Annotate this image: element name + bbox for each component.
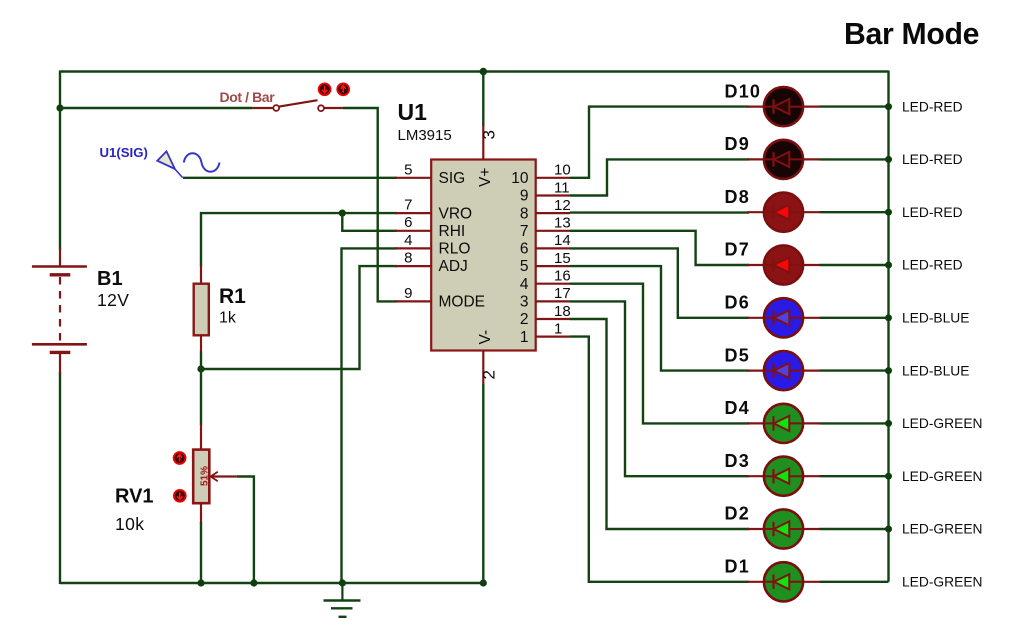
svg-text:4: 4 bbox=[520, 276, 529, 293]
svg-text:7: 7 bbox=[520, 223, 529, 240]
svg-text:51%: 51% bbox=[200, 466, 211, 486]
LED D6 bbox=[747, 298, 889, 337]
LED D5 bbox=[747, 351, 889, 390]
svg-text:U1(SIG): U1(SIG) bbox=[100, 145, 148, 160]
svg-text:17: 17 bbox=[554, 285, 571, 302]
pin 5 SIG stub bbox=[395, 177, 431, 179]
svg-text:D3: D3 bbox=[725, 451, 750, 471]
svg-text:1: 1 bbox=[554, 320, 562, 337]
svg-text:LED-GREEN: LED-GREEN bbox=[902, 469, 983, 484]
wire top +12V rail bbox=[60, 70, 889, 72]
wire RV1 bottom to ground rail bbox=[200, 522, 202, 584]
wire net 11 to LED bbox=[570, 159, 749, 195]
svg-text:8: 8 bbox=[520, 205, 529, 222]
svg-text:7: 7 bbox=[404, 197, 412, 214]
pin 8 right stub bbox=[536, 212, 570, 214]
pin 6 right stub bbox=[536, 247, 570, 249]
svg-text:D5: D5 bbox=[725, 345, 750, 365]
potentiometer RV1 bbox=[193, 424, 237, 524]
node junction rail D4 bbox=[885, 420, 892, 427]
wire net 17 to LED bbox=[570, 301, 749, 476]
wire RV1 wiper to ground rail bbox=[237, 477, 254, 584]
svg-text:Bar Mode: Bar Mode bbox=[844, 18, 979, 51]
LED D1 bbox=[747, 562, 889, 601]
svg-text:V+: V+ bbox=[477, 168, 494, 187]
pin 7 right stub bbox=[536, 230, 570, 232]
svg-text:2: 2 bbox=[520, 311, 529, 328]
svg-text:LED-RED: LED-RED bbox=[902, 258, 963, 273]
svg-text:10: 10 bbox=[511, 170, 529, 187]
svg-text:D1: D1 bbox=[725, 557, 750, 577]
wire net 18 to LED bbox=[570, 319, 749, 529]
svg-text:15: 15 bbox=[554, 250, 571, 267]
node junction rail D7 bbox=[885, 262, 892, 269]
wire VRO to R1 top bbox=[201, 213, 397, 266]
node junction RV1 bottom / rail bbox=[197, 579, 204, 586]
switch SW1 Dot/Bar bbox=[253, 100, 343, 111]
svg-text:LM3915: LM3915 bbox=[398, 127, 452, 144]
svg-text:LED-BLUE: LED-BLUE bbox=[902, 363, 969, 378]
svg-text:9: 9 bbox=[520, 188, 529, 205]
svg-text:ADJ: ADJ bbox=[439, 258, 468, 275]
pin 2 V- wire bbox=[482, 351, 484, 584]
wire net 15 to LED bbox=[570, 266, 749, 371]
pin 9 MODE stub bbox=[395, 300, 431, 302]
svg-text:LED-RED: LED-RED bbox=[902, 152, 963, 167]
svg-text:LED-GREEN: LED-GREEN bbox=[902, 416, 983, 431]
LED D2 bbox=[747, 509, 889, 548]
svg-text:B1: B1 bbox=[97, 268, 123, 290]
svg-text:2: 2 bbox=[480, 370, 499, 379]
wire SIG signal bbox=[183, 177, 397, 179]
pin 7 VRO stub bbox=[395, 212, 431, 214]
svg-text:4: 4 bbox=[404, 232, 412, 249]
node junction top rail / V+ pin bbox=[480, 68, 487, 75]
svg-text:1: 1 bbox=[520, 329, 529, 346]
svg-text:VRO: VRO bbox=[439, 205, 473, 222]
svg-text:LED-GREEN: LED-GREEN bbox=[902, 522, 983, 537]
svg-text:D6: D6 bbox=[725, 293, 750, 313]
svg-text:11: 11 bbox=[554, 179, 570, 196]
svg-text:LED-GREEN: LED-GREEN bbox=[902, 575, 983, 590]
svg-text:10: 10 bbox=[554, 162, 571, 179]
wire net 13 to LED bbox=[570, 231, 749, 265]
LED D9 bbox=[747, 140, 889, 179]
svg-text:12: 12 bbox=[554, 197, 571, 214]
svg-text:D8: D8 bbox=[725, 187, 750, 207]
svg-text:U1: U1 bbox=[398, 99, 428, 125]
pin 4 RLO stub bbox=[395, 247, 431, 249]
svg-text:8: 8 bbox=[404, 250, 412, 267]
wire net 12 to D8 bbox=[570, 211, 749, 213]
pin 4 right stub bbox=[536, 283, 570, 285]
generator probe bbox=[157, 151, 219, 177]
svg-text:SIG: SIG bbox=[439, 170, 466, 187]
ground symbol bbox=[324, 583, 361, 617]
node junction rail D6 bbox=[885, 314, 892, 321]
svg-text:1k: 1k bbox=[219, 310, 237, 327]
LED D4 bbox=[747, 404, 889, 443]
node junction rail D5 bbox=[885, 367, 892, 374]
svg-text:5: 5 bbox=[520, 258, 529, 275]
svg-text:10k: 10k bbox=[115, 514, 144, 534]
svg-text:18: 18 bbox=[554, 303, 571, 320]
svg-text:D2: D2 bbox=[725, 504, 750, 524]
node junction rail D10 bbox=[885, 103, 892, 110]
svg-text:3: 3 bbox=[520, 294, 529, 311]
svg-text:RHI: RHI bbox=[439, 223, 466, 240]
svg-text:MODE: MODE bbox=[439, 294, 486, 311]
switch actuator down bbox=[319, 83, 331, 95]
wire net 14 to LED bbox=[570, 248, 749, 317]
svg-text:16: 16 bbox=[554, 268, 571, 285]
pin 6 RHI stub bbox=[395, 230, 431, 232]
svg-text:R1: R1 bbox=[219, 285, 246, 308]
wire R1 bottom to RV1 top bbox=[200, 369, 202, 425]
LED D7 bbox=[747, 245, 889, 284]
pin 9 right stub bbox=[536, 194, 570, 196]
pin 5 right stub bbox=[536, 265, 570, 267]
svg-text:9: 9 bbox=[404, 285, 412, 302]
node junction R1 bottom / RV1 top bbox=[197, 365, 204, 372]
wire right +12V rail bbox=[887, 71, 889, 582]
svg-text:D7: D7 bbox=[725, 240, 750, 260]
wire RLO to ground rail bbox=[342, 248, 398, 583]
op-amp U1 LM3915 body bbox=[431, 160, 536, 351]
svg-text:6: 6 bbox=[404, 214, 412, 231]
node junction V- / rail bbox=[480, 579, 487, 586]
svg-text:3: 3 bbox=[480, 130, 499, 139]
node junction rail D9 bbox=[885, 156, 892, 163]
pin 3 V+ wire bbox=[482, 72, 484, 160]
svg-text:12V: 12V bbox=[97, 290, 129, 310]
node junction rail D2 bbox=[885, 526, 892, 533]
svg-text:LED-RED: LED-RED bbox=[902, 99, 963, 114]
svg-text:6: 6 bbox=[520, 241, 529, 258]
LED D3 bbox=[747, 457, 889, 496]
node junction VRO/RHI bbox=[339, 210, 346, 217]
wire net 16 to LED bbox=[570, 284, 749, 424]
node junction left rail / switch feed bbox=[56, 104, 63, 111]
pin 3 right stub bbox=[536, 300, 570, 302]
svg-text:14: 14 bbox=[554, 232, 571, 249]
wire switch output to MODE corner bbox=[343, 108, 397, 301]
svg-text:RLO: RLO bbox=[439, 241, 471, 258]
pin 2 right stub bbox=[536, 318, 570, 320]
wire ADJ to R1 bottom bbox=[201, 266, 397, 369]
svg-text:LED-RED: LED-RED bbox=[902, 205, 963, 220]
RV1 actuator up bbox=[174, 452, 186, 464]
svg-text:D10: D10 bbox=[725, 81, 762, 101]
node junction wiper / rail bbox=[250, 579, 257, 586]
pin 10 right stub bbox=[536, 177, 570, 179]
svg-text:5: 5 bbox=[404, 161, 412, 178]
wire switch feed from left rail bbox=[60, 107, 253, 109]
LED D10 bbox=[747, 87, 889, 126]
pin 1 right stub bbox=[536, 336, 570, 338]
svg-text:RV1: RV1 bbox=[115, 486, 154, 508]
battery B1 bbox=[32, 248, 87, 374]
svg-text:Dot / Bar: Dot / Bar bbox=[220, 89, 276, 105]
svg-text:V-: V- bbox=[477, 330, 494, 345]
node junction ground / rail bbox=[339, 579, 346, 586]
node junction rail D8 bbox=[885, 209, 892, 216]
wire RHI link bbox=[342, 213, 397, 231]
switch actuator up bbox=[337, 83, 349, 95]
svg-text:D9: D9 bbox=[725, 134, 750, 154]
svg-text:LED-BLUE: LED-BLUE bbox=[902, 311, 969, 326]
RV1 actuator down bbox=[174, 490, 186, 502]
wire net 1 to LED bbox=[570, 337, 749, 582]
resistor R1 bbox=[194, 266, 209, 371]
svg-text:D4: D4 bbox=[725, 398, 750, 418]
LED D8 bbox=[747, 193, 889, 232]
wire bottom ground rail bbox=[60, 582, 483, 584]
wire left rail upper segment bbox=[59, 71, 61, 250]
pin 8 ADJ stub bbox=[395, 265, 431, 267]
wire net 10 to LED bbox=[570, 107, 749, 178]
node junction rail D3 bbox=[885, 473, 892, 480]
svg-text:13: 13 bbox=[554, 215, 571, 232]
wire left rail lower segment bbox=[59, 372, 61, 584]
